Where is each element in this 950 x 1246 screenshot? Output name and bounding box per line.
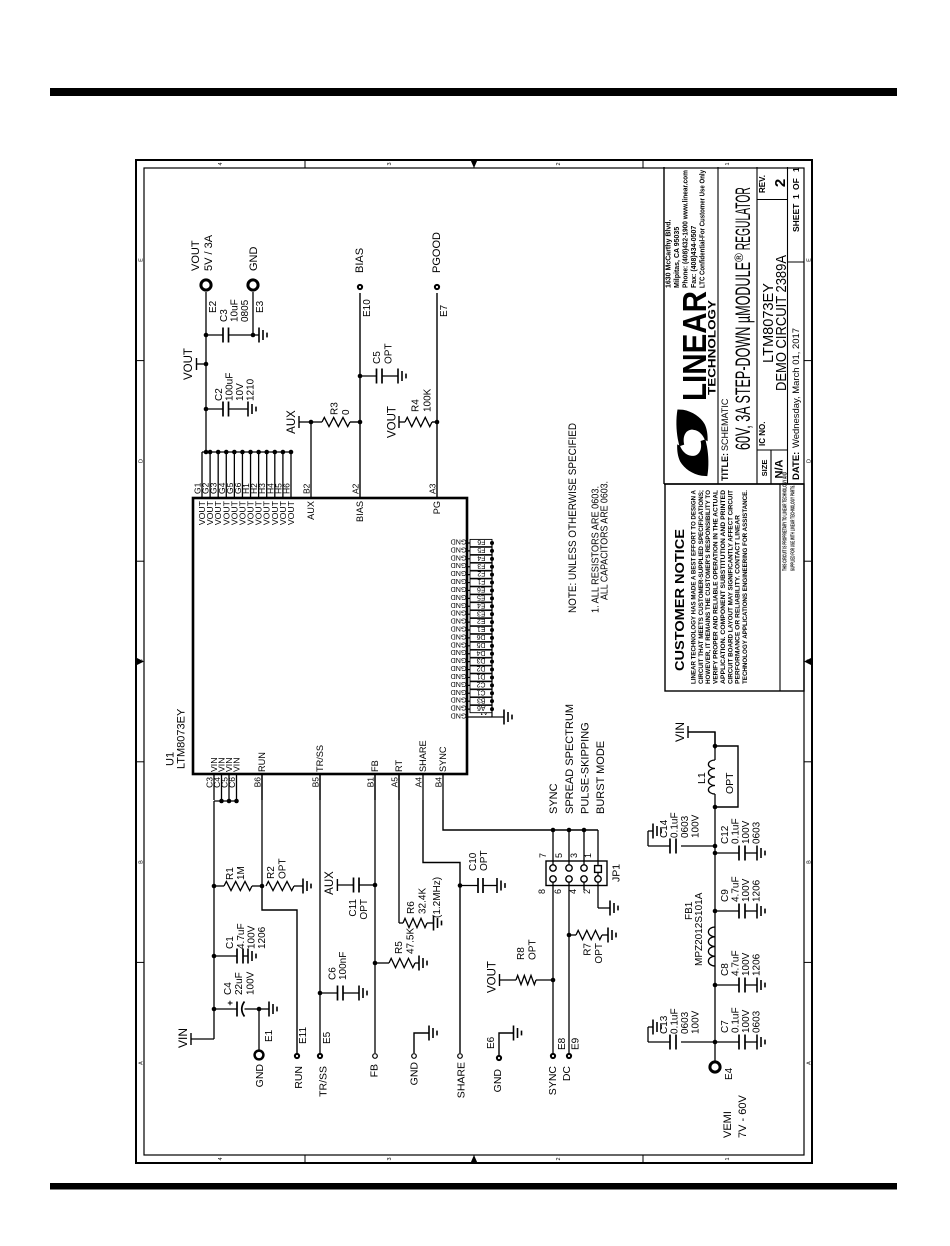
svg-text:FB: FB (369, 1064, 381, 1077)
svg-text:E9: E9 (571, 1037, 582, 1050)
svg-text:Fax: (408)434-0507: Fax: (408)434-0507 (691, 226, 698, 288)
svg-text:2: 2 (556, 162, 562, 165)
svg-text:B2: B2 (302, 483, 312, 494)
svg-text:E4: E4 (724, 1067, 735, 1080)
svg-text:N/A: N/A (774, 459, 786, 478)
svg-text:TECHNOLOGY APPLICATIONS ENGINE: TECHNOLOGY APPLICATIONS ENGINEERING FOR … (742, 490, 749, 684)
svg-text:LTC Confidential-For Customer: LTC Confidential-For Customer Use Only (700, 170, 707, 288)
svg-text:4: 4 (218, 162, 224, 165)
svg-text:HOWEVER, IT REMAINS THE CUSTOM: HOWEVER, IT REMAINS THE CUSTOMER'S RESPO… (705, 490, 712, 684)
svg-text:DATE:: DATE: (791, 452, 802, 480)
svg-text:Milpitas, CA 95035: Milpitas, CA 95035 (674, 227, 681, 288)
svg-text:R1: R1 (225, 867, 236, 880)
svg-text:E11: E11 (298, 1027, 309, 1044)
svg-text:SPREAD SPECTRUM: SPREAD SPECTRUM (564, 704, 576, 814)
svg-text:1206: 1206 (752, 879, 763, 902)
svg-text:A5: A5 (390, 777, 400, 788)
svg-text:R8: R8 (516, 947, 527, 960)
svg-text:F5: F5 (477, 546, 485, 553)
svg-text:0.1uF: 0.1uF (670, 1008, 681, 1034)
svg-text:D4: D4 (476, 649, 485, 656)
svg-text:100V: 100V (741, 952, 752, 976)
svg-text:1: 1 (725, 162, 731, 165)
svg-text:OPT: OPT (278, 858, 289, 879)
svg-text:E7: E7 (439, 304, 450, 317)
svg-text:SYNC: SYNC (548, 783, 560, 814)
svg-text:E8: E8 (557, 1037, 568, 1050)
svg-text:VOUT: VOUT (387, 406, 399, 438)
svg-text:22uF: 22uF (234, 972, 245, 995)
svg-text:7V - 60V: 7V - 60V (737, 1095, 749, 1138)
svg-text:D5: D5 (476, 641, 485, 648)
svg-text:0603: 0603 (680, 1011, 691, 1034)
svg-text:C2: C2 (476, 680, 485, 687)
svg-text:OPT: OPT (594, 943, 605, 964)
svg-text:PULSE-SKIPPING: PULSE-SKIPPING (580, 722, 592, 814)
svg-text:8: 8 (537, 889, 547, 894)
svg-text:BURST MODE: BURST MODE (595, 741, 607, 814)
svg-text:0603: 0603 (752, 1010, 763, 1033)
svg-text:OPT: OPT (724, 772, 736, 794)
svg-text:GND: GND (254, 1064, 266, 1088)
svg-text:F1: F1 (477, 578, 485, 585)
svg-text:OPT: OPT (528, 939, 539, 960)
svg-text:E: E (138, 258, 144, 262)
svg-text:JP1: JP1 (611, 864, 623, 882)
svg-text:B4: B4 (434, 777, 444, 788)
svg-text:VIN: VIN (673, 722, 687, 742)
svg-text:LINEAR TECHNOLOGY HAS MADE A B: LINEAR TECHNOLOGY HAS MADE A BEST EFFORT… (691, 490, 698, 684)
svg-text:2: 2 (772, 179, 789, 187)
svg-text:0: 0 (341, 409, 352, 415)
svg-text:TITLE:: TITLE: (720, 453, 730, 481)
svg-text:1: 1 (791, 167, 801, 172)
svg-text:4.7uF: 4.7uF (236, 923, 247, 949)
svg-text:CIRCUIT BOARD LAYOUT MAY SIGNI: CIRCUIT BOARD LAYOUT MAY SIGNIFICANTLY A… (727, 489, 734, 684)
svg-text:E1: E1 (264, 1029, 275, 1042)
svg-text:F3: F3 (477, 562, 485, 569)
svg-text:TR/SS: TR/SS (318, 1066, 330, 1097)
svg-text:VOUT: VOUT (487, 961, 499, 993)
svg-text:3: 3 (387, 1157, 393, 1160)
svg-text:PERFORMANCE OR RELIABILITY. C: PERFORMANCE OR RELIABILITY. CONTACT LINE… (735, 515, 742, 684)
svg-text:F2: F2 (477, 570, 485, 577)
svg-text:1210: 1210 (246, 378, 257, 401)
svg-text:E2: E2 (477, 617, 486, 624)
svg-text:IC NO.: IC NO. (758, 422, 767, 446)
svg-text:C9: C9 (720, 889, 731, 902)
svg-text:VEMI: VEMI (722, 1111, 734, 1138)
svg-text:AUX: AUX (324, 871, 336, 895)
svg-text:REV.: REV. (758, 175, 767, 193)
svg-text:0805: 0805 (240, 299, 251, 322)
svg-text:C7: C7 (720, 1020, 731, 1033)
svg-text:100uF: 100uF (225, 373, 236, 401)
svg-text:D3: D3 (476, 657, 485, 664)
svg-text:SYNC: SYNC (438, 746, 448, 772)
svg-text:3: 3 (569, 853, 579, 858)
svg-text:L1: L1 (696, 772, 708, 784)
svg-text:B: B (138, 860, 144, 864)
svg-text:100V: 100V (247, 925, 258, 949)
svg-text:F4: F4 (477, 554, 485, 561)
svg-text:SHARE: SHARE (456, 1062, 468, 1098)
svg-text:OPT: OPT (359, 899, 370, 920)
svg-text:PGOOD: PGOOD (431, 232, 443, 273)
svg-text:3: 3 (387, 162, 393, 165)
svg-text:FB: FB (370, 760, 380, 772)
svg-text:RT: RT (394, 760, 404, 772)
svg-text:E2: E2 (208, 300, 219, 313)
svg-text:CIRCUIT THAT MEETS CUSTOMER-SU: CIRCUIT THAT MEETS CUSTOMER-SUPPLIED SPE… (698, 490, 705, 684)
svg-text:CUSTOMER NOTICE: CUSTOMER NOTICE (672, 529, 687, 671)
svg-text:DC: DC (561, 1066, 573, 1082)
svg-text:R6: R6 (406, 901, 417, 914)
svg-text:LTM8073EY: LTM8073EY (176, 708, 188, 769)
svg-text:C10: C10 (468, 852, 479, 871)
svg-text:B3: B3 (477, 696, 486, 703)
svg-text:VIN: VIN (176, 1028, 190, 1048)
svg-text:TECHNOLOGY: TECHNOLOGY (707, 299, 719, 395)
svg-text:1630 McCarthy Blvd.: 1630 McCarthy Blvd. (666, 219, 673, 288)
svg-text:R2: R2 (266, 866, 277, 879)
svg-text:E: E (806, 258, 812, 262)
svg-text:RUN: RUN (257, 752, 267, 772)
svg-text:C6: C6 (227, 777, 237, 788)
svg-text:100V: 100V (691, 814, 702, 838)
svg-text:THIS CIRCUIT IS PROPRIETARY TO: THIS CIRCUIT IS PROPRIETARY TO LINEAR TE… (783, 472, 789, 571)
svg-text:5V / 3A: 5V / 3A (203, 234, 215, 271)
svg-text:APPLICATION. COMPONENT SUBST: APPLICATION. COMPONENT SUBSTITUTION AND … (720, 490, 727, 684)
svg-text:A3: A3 (428, 483, 438, 494)
svg-text:C6: C6 (328, 967, 339, 980)
svg-text:E3: E3 (477, 609, 486, 616)
svg-text:0.1uF: 0.1uF (731, 818, 742, 844)
svg-text:Phone: (408)432-1900 www.line: Phone: (408)432-1900 www.linear.com (683, 170, 690, 288)
svg-text:B5: B5 (311, 777, 321, 788)
svg-text:PG: PG (432, 501, 442, 514)
svg-text:A: A (138, 1061, 144, 1065)
svg-text:SUPPLIED FOR USE WITH LINEAR T: SUPPLIED FOR USE WITH LINEAR TECHNOLOGY … (791, 485, 797, 571)
svg-text:SYNC: SYNC (547, 1066, 559, 1096)
svg-text:D: D (806, 459, 812, 463)
svg-text:100V: 100V (741, 878, 752, 902)
svg-text:A4: A4 (414, 777, 424, 788)
svg-text:C8: C8 (720, 963, 731, 976)
svg-text:2: 2 (556, 1157, 562, 1160)
svg-text:OF: OF (791, 178, 801, 190)
svg-text:RUN: RUN (293, 1066, 305, 1089)
svg-text:AUX: AUX (286, 410, 298, 434)
svg-text:C13: C13 (659, 1015, 670, 1034)
svg-text:32.4K: 32.4K (418, 888, 429, 914)
svg-text:D: D (138, 459, 144, 463)
svg-text:DEMO CIRCUIT 2389A: DEMO CIRCUIT 2389A (773, 255, 790, 391)
svg-text:C11: C11 (348, 899, 359, 917)
svg-text:4: 4 (218, 1157, 224, 1160)
svg-text:BIAS: BIAS (355, 501, 365, 522)
svg-text:GND: GND (248, 247, 260, 272)
svg-text:GND: GND (492, 1069, 504, 1093)
svg-text:1: 1 (583, 853, 593, 858)
svg-text:0603: 0603 (680, 815, 691, 838)
svg-text:1: 1 (725, 1157, 731, 1160)
svg-text:A: A (806, 1061, 812, 1065)
svg-text:AUX: AUX (306, 501, 316, 520)
svg-text:47.5K: 47.5K (406, 928, 417, 954)
svg-text:4.7uF: 4.7uF (731, 876, 742, 902)
svg-text:ALL CAPACITORS ARE 0603.: ALL CAPACITORS ARE 0603. (600, 481, 611, 600)
svg-text:NOTE: UNLESS OTHERWISE SPECIFI: NOTE: UNLESS OTHERWISE SPECIFIED (567, 423, 579, 613)
svg-text:C3: C3 (219, 309, 230, 322)
svg-text:C2: C2 (214, 388, 225, 401)
svg-text:1206: 1206 (257, 926, 268, 949)
svg-text:R3: R3 (330, 402, 341, 415)
svg-text:100V: 100V (691, 1010, 702, 1034)
svg-text:E10: E10 (362, 299, 373, 317)
svg-text:F6: F6 (477, 538, 485, 545)
svg-text:A6: A6 (477, 704, 486, 711)
svg-text:100V: 100V (246, 971, 257, 995)
svg-text:E5: E5 (322, 1031, 333, 1044)
svg-text:B1: B1 (366, 777, 376, 788)
svg-text:B: B (806, 860, 812, 864)
svg-text:C12: C12 (720, 825, 731, 844)
svg-text:SCHEMATIC: SCHEMATIC (720, 398, 730, 451)
svg-text:(1.2MHz): (1.2MHz) (432, 877, 443, 918)
svg-text:BIAS: BIAS (354, 248, 366, 273)
svg-text:Wednesday, March 01, 2017: Wednesday, March 01, 2017 (791, 328, 802, 448)
svg-text:100K: 100K (423, 388, 434, 412)
svg-text:10uF: 10uF (230, 299, 241, 322)
svg-text:60V, 3A STEP-DOWN µMODULE® REG: 60V, 3A STEP-DOWN µMODULE® REGULATOR (732, 187, 755, 450)
svg-text:1206: 1206 (752, 953, 763, 976)
svg-text:VIN: VIN (232, 758, 242, 772)
svg-text:5: 5 (554, 853, 564, 858)
svg-text:B6: B6 (253, 777, 263, 788)
svg-text:E5: E5 (477, 593, 486, 600)
svg-text:0.1uF: 0.1uF (731, 1007, 742, 1033)
svg-text:10V: 10V (235, 383, 246, 401)
svg-text:E6: E6 (486, 1036, 497, 1049)
svg-text:OPT: OPT (479, 850, 490, 871)
svg-text:VOUT: VOUT (183, 348, 195, 380)
svg-text:SHARE: SHARE (418, 740, 428, 772)
svg-text:R7: R7 (583, 943, 594, 956)
svg-text:MPZ2012S101A: MPZ2012S101A (694, 892, 705, 966)
svg-text:H6: H6 (281, 483, 291, 494)
svg-text:E6: E6 (477, 586, 486, 593)
svg-text:7: 7 (538, 853, 548, 858)
svg-text:+: + (225, 1000, 235, 1005)
svg-text:SIZE: SIZE (760, 460, 769, 477)
svg-text:100V: 100V (741, 820, 752, 844)
svg-text:VERIFY PROPER AND RELIABLE OPE: VERIFY PROPER AND RELIABLE OPERATION IN … (713, 490, 720, 684)
svg-text:R4: R4 (411, 399, 422, 412)
svg-text:C5: C5 (372, 351, 383, 364)
svg-text:VOUT: VOUT (190, 240, 202, 271)
svg-text:GND: GND (409, 1062, 421, 1086)
svg-text:1M: 1M (236, 866, 247, 880)
svg-text:GND: GND (451, 538, 467, 547)
svg-text:A2: A2 (351, 483, 361, 494)
svg-text:D1: D1 (476, 673, 485, 680)
svg-text:SHEET: SHEET (791, 203, 801, 232)
svg-text:D2: D2 (476, 665, 485, 672)
svg-text:1: 1 (791, 194, 801, 199)
svg-text:E1: E1 (477, 625, 486, 632)
svg-text:R5: R5 (394, 941, 405, 954)
svg-text:E4: E4 (477, 601, 486, 608)
svg-text:TR/SS: TR/SS (315, 745, 325, 772)
svg-text:OPT: OPT (384, 343, 395, 364)
svg-text:100nF: 100nF (338, 952, 349, 980)
svg-text:0603: 0603 (752, 821, 763, 844)
svg-text:6: 6 (553, 889, 563, 894)
svg-text:C14: C14 (659, 819, 670, 838)
svg-text:4.7uF: 4.7uF (731, 950, 742, 976)
svg-text:C4: C4 (223, 982, 234, 995)
svg-text:100V: 100V (741, 1009, 752, 1033)
svg-text:VOUT: VOUT (286, 500, 296, 525)
svg-text:0.1uF: 0.1uF (670, 812, 681, 838)
svg-text:D6: D6 (476, 633, 485, 640)
svg-text:E3: E3 (255, 300, 266, 313)
svg-text:C1: C1 (476, 688, 485, 695)
svg-text:C1: C1 (225, 936, 236, 949)
